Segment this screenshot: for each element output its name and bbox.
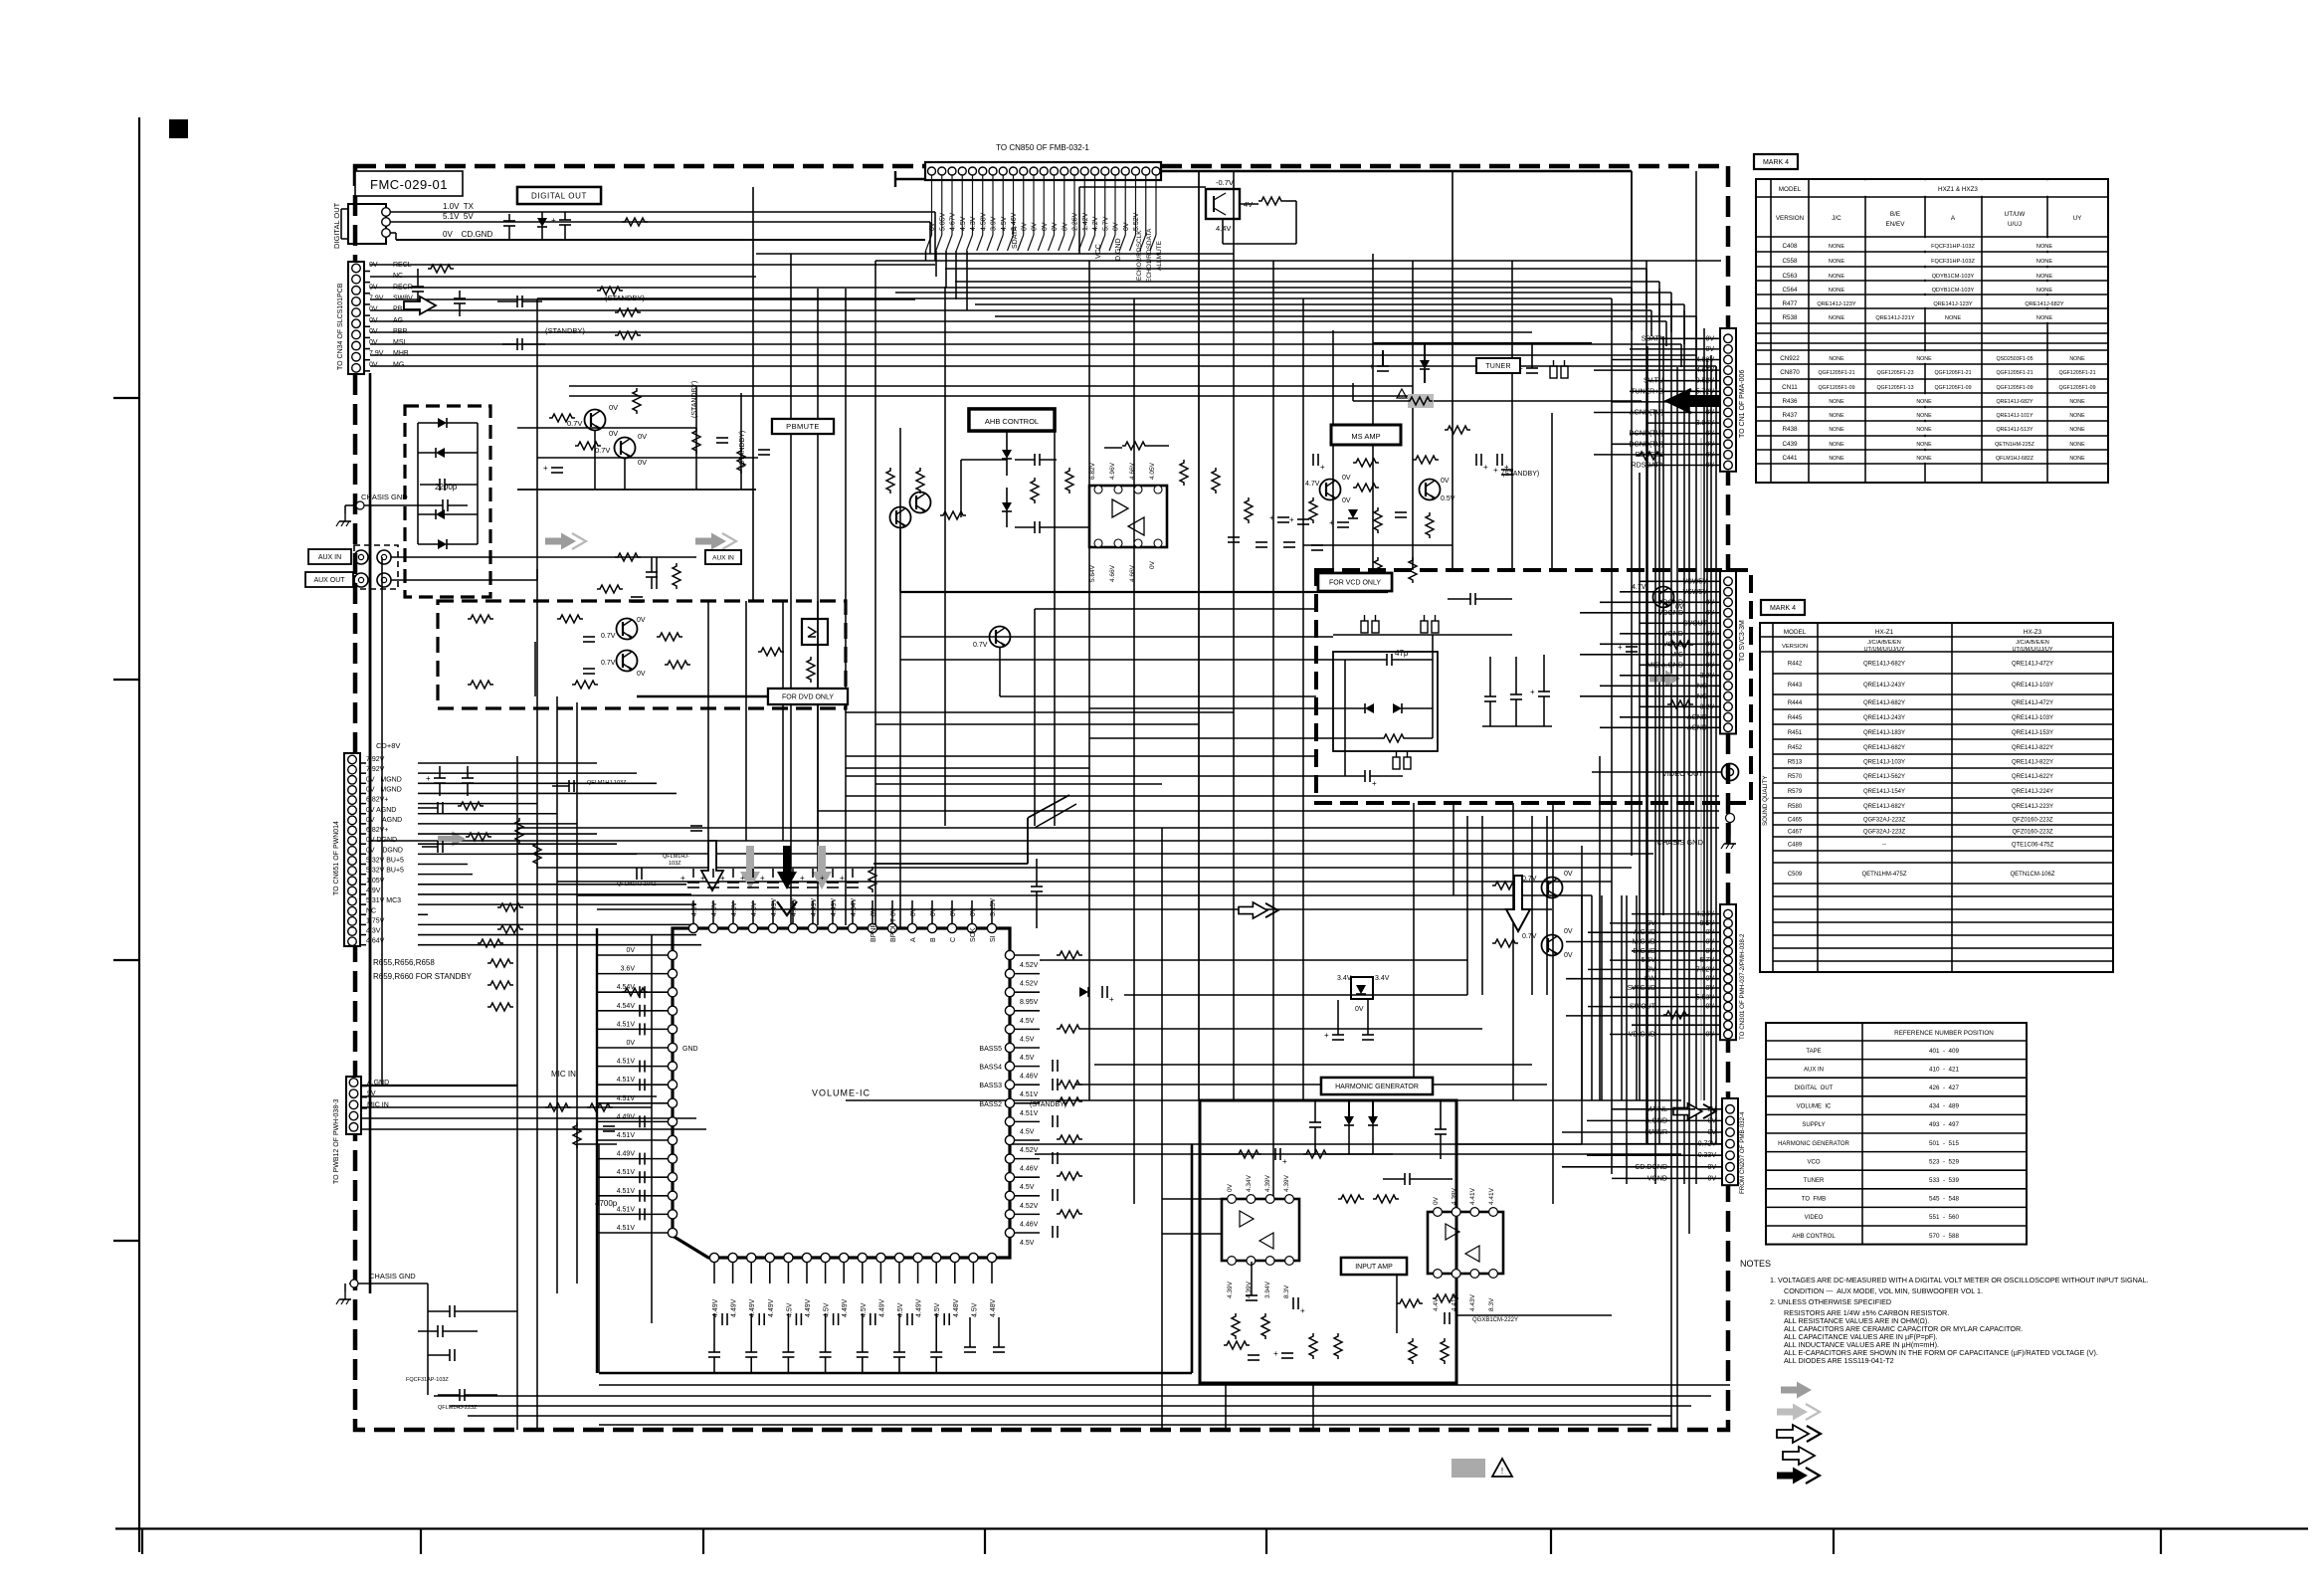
label box FOR DVD ONLY top: [768, 689, 848, 704]
svg-text:FQCF31HP-103Z: FQCF31HP-103Z: [1931, 244, 1975, 250]
pin 2: [938, 167, 946, 175]
svg-text:0V: 0V: [871, 907, 877, 916]
svg-text:QRE141J-682Y: QRE141J-682Y: [1996, 399, 2033, 405]
svg-text:0V: 0V: [930, 907, 937, 916]
wire thick right: [1161, 170, 1632, 173]
wire: [899, 428, 901, 928]
svg-text:PBR: PBR: [393, 328, 407, 335]
svg-text:!: !: [1501, 1467, 1503, 1476]
wire: [732, 1263, 734, 1283]
svg-text:0V: 0V: [1342, 475, 1351, 482]
capacitor C4612: [639, 1171, 641, 1183]
resistor R504: [1373, 1195, 1399, 1203]
resistor R505: [1232, 1313, 1240, 1339]
svg-text:0.5V: 0.5V: [1441, 495, 1455, 502]
capacitor C434: [1362, 1034, 1374, 1036]
pin 23: [1005, 1117, 1014, 1126]
pin 1: [709, 1253, 718, 1262]
wire: [1706, 358, 1708, 925]
wire: [898, 1263, 900, 1283]
legend gray rect: [1452, 1459, 1485, 1478]
wire: [576, 702, 578, 1283]
svg-text:545 - 548: 545 - 548: [1929, 1196, 1960, 1203]
wire: [1191, 1144, 1194, 1373]
wire: [1531, 816, 1533, 995]
wire: [825, 1263, 827, 1283]
svg-text:QFLM1HJ-: QFLM1HJ-: [663, 854, 689, 860]
wire: [598, 1144, 600, 1373]
svg-text:DIGITAL OUT: DIGITAL OUT: [531, 191, 587, 200]
svg-text:+: +: [740, 874, 745, 883]
wire: [1610, 1034, 1693, 1036]
wire: [418, 833, 597, 835]
FMC-029-01 block dashed border: [355, 166, 1728, 1430]
capacitor C481: [758, 1313, 760, 1325]
resistor extra: [1409, 557, 1417, 583]
pin 48: [688, 923, 697, 932]
capacitor C413: [583, 668, 595, 670]
svg-text:R451: R451: [1788, 730, 1803, 736]
svg-text:TO SVC3-3M: TO SVC3-3M: [1739, 620, 1746, 662]
svg-text:4.51V: 4.51V: [617, 1059, 636, 1066]
wire: [418, 923, 691, 925]
wire: [1715, 366, 1717, 389]
wire: [1592, 771, 1721, 773]
svg-text:493 - 497: 493 - 497: [1929, 1121, 1960, 1128]
svg-text:UT/UM/U/UJ/UY: UT/UM/U/UJ/UY: [1863, 647, 1904, 653]
svg-text:0V DGND: 0V DGND: [366, 847, 403, 854]
svg-text:2.26V: 2.26V: [1072, 212, 1079, 231]
capacitor C408a: [758, 449, 770, 451]
pin 60: [668, 1154, 677, 1163]
resistor R402: [597, 287, 623, 295]
wire: [875, 260, 1721, 262]
svg-text:(STANDBY): (STANDBY): [739, 431, 746, 468]
label box FOR VCD ONLY: [1318, 573, 1392, 591]
capacitor C486: [943, 1313, 945, 1325]
svg-text:0V: 0V: [1227, 1183, 1234, 1192]
legend open arrow: [1783, 1447, 1815, 1465]
wire: [812, 869, 814, 878]
wire: [1610, 922, 1693, 924]
wire: [934, 212, 936, 261]
wire: [1094, 175, 1096, 235]
wire: [1332, 330, 1334, 570]
FOR VCD ONLY dashed box: [1316, 570, 1751, 803]
diode D407: [1002, 502, 1012, 511]
wire: [1601, 895, 1603, 1100]
svg-text:+: +: [1289, 515, 1294, 524]
pin 41: [828, 923, 837, 932]
svg-text:VCO: VCO: [1807, 1159, 1820, 1165]
pin 6: [979, 167, 987, 175]
svg-text:5.64V: 5.64V: [1089, 564, 1096, 582]
wire: [1691, 369, 1720, 371]
wire: [1662, 336, 1664, 915]
ecap C448: [1101, 986, 1103, 998]
svg-text:QRE141J-123Y: QRE141J-123Y: [1933, 301, 1972, 307]
down arrow big: [1506, 876, 1530, 931]
resistor R420: [807, 657, 815, 683]
svg-text:VIDEO OUT: VIDEO OUT: [1662, 769, 1704, 778]
resistor R421: [1259, 197, 1284, 205]
svg-text:B/E: B/E: [1890, 211, 1900, 218]
svg-text:0.7V: 0.7V: [601, 660, 616, 667]
wire: [790, 254, 792, 925]
table MARK4 span masks: [1810, 180, 2107, 196]
wire: [1481, 816, 1483, 995]
pin 8: [348, 867, 357, 876]
svg-text:QRE141J-622Y: QRE141J-622Y: [2012, 774, 2053, 780]
wire: [1646, 269, 1647, 308]
pin 54: [668, 1043, 677, 1052]
inductor L402: [1361, 621, 1368, 633]
wire: [1002, 175, 1004, 235]
svg-text:R444: R444: [1788, 700, 1803, 706]
wire: [1015, 1010, 1040, 1012]
pin 25: [1005, 1081, 1014, 1089]
wire: [951, 175, 953, 235]
wire: [1600, 643, 1693, 645]
resistor extra: [1374, 557, 1382, 583]
resistor R455: [869, 867, 876, 892]
bottom ruler line: [115, 1527, 2308, 1529]
svg-text:HXZ1 & HXZ3: HXZ1 & HXZ3: [1938, 186, 1978, 193]
capacitor C4614: [639, 1208, 641, 1220]
svg-text:4.39V: 4.39V: [1227, 1281, 1234, 1298]
capacitor C441a QFLM1HJ-104Z: [636, 868, 638, 880]
svg-text:C467: C467: [1788, 830, 1803, 836]
wire: [597, 1028, 668, 1030]
wire: [975, 303, 1684, 305]
svg-text:QRE141J-154Y: QRE141J-154Y: [1863, 789, 1905, 795]
svg-text:4.5V: 4.5V: [861, 1302, 868, 1317]
capacitor C495: [893, 1351, 905, 1353]
capacitor C490: [708, 1351, 720, 1353]
resistor R415: [657, 633, 682, 641]
wire: [361, 1106, 652, 1108]
white arrow PB: [404, 296, 436, 314]
wire: [1630, 433, 1691, 435]
resistor R503: [1338, 1195, 1364, 1203]
wire: [1015, 1213, 1040, 1215]
down arrow gray: [740, 846, 760, 889]
capacitor C496: [930, 1351, 942, 1353]
wire: [756, 253, 1234, 255]
transistor Q404: [617, 651, 638, 672]
capacitor C469: [639, 1115, 641, 1127]
wire: [1580, 695, 1693, 697]
wire: [971, 900, 973, 923]
svg-text:4.52V: 4.52V: [1020, 1147, 1039, 1154]
IC U404 VOLUME-IC body: [673, 928, 1010, 1258]
pin 4: [765, 1253, 774, 1262]
pin 30: [1005, 988, 1014, 997]
wire: [1693, 675, 1720, 677]
wire: [597, 1010, 668, 1012]
svg-text:+: +: [551, 216, 556, 225]
wire: [1089, 707, 1345, 709]
wire: [534, 642, 536, 696]
wire: [911, 900, 913, 923]
svg-text:QGF32AJ-223Z: QGF32AJ-223Z: [1863, 818, 1906, 824]
resistor R452a: [545, 1103, 571, 1111]
wire: [846, 711, 1234, 713]
wire: [1162, 1233, 1222, 1235]
resistor R456a: [622, 988, 648, 996]
gray arrow: [1649, 671, 1680, 688]
wire: [370, 287, 1632, 289]
pin 3: [352, 287, 361, 296]
svg-text:+: +: [1109, 995, 1114, 1004]
wire: [361, 1128, 706, 1130]
pin 2: [382, 218, 391, 227]
wire: [1600, 685, 1693, 687]
svg-text:SDATA: SDATA: [1012, 226, 1019, 249]
pin 39: [868, 923, 876, 932]
wire: [344, 505, 346, 513]
svg-text:R579: R579: [1788, 789, 1803, 795]
wire: [750, 1263, 752, 1283]
capacitor C482: [795, 1313, 797, 1325]
svg-text:QGF1205F1-21: QGF1205F1-21: [1818, 370, 1854, 376]
wire: [1646, 346, 1648, 1144]
svg-text:8.95V: 8.95V: [1020, 999, 1039, 1006]
svg-text:QGF1205F1-09: QGF1205F1-09: [1934, 385, 1971, 391]
capacitor C411: [631, 596, 643, 598]
wire: [991, 900, 993, 923]
capacitor C464: [639, 1023, 641, 1035]
resistor R501: [1236, 1150, 1261, 1158]
wire: [1161, 828, 1163, 1430]
pin 35: [947, 923, 956, 932]
wire: [991, 1263, 993, 1283]
wire: [1015, 1139, 1040, 1141]
svg-text:C441: C441: [1782, 455, 1798, 462]
wire: [1693, 922, 1720, 924]
svg-text:+: +: [700, 874, 705, 883]
resistor R516: [1667, 641, 1693, 649]
wire: [1612, 443, 1691, 445]
svg-text:QRE141J-101Y: QRE141J-101Y: [1996, 413, 2033, 419]
wire: [692, 869, 694, 878]
capacitor extra: [1256, 541, 1267, 543]
resistor R443a: [515, 818, 523, 844]
transistor Q401: [585, 410, 606, 431]
diode D405: [438, 539, 447, 549]
svg-text:2. UNLESS OTHERWISE SPECIFIED: 2. UNLESS OTHERWISE SPECIFIED: [1770, 1297, 1891, 1306]
svg-text:7.92V: 7.92V: [366, 766, 385, 773]
wire: [945, 251, 947, 288]
resistor R450: [487, 981, 513, 989]
wire: [1695, 355, 1697, 378]
wire: [344, 1283, 346, 1291]
wire: [577, 1143, 617, 1145]
capacitor extra: [1228, 536, 1240, 538]
svg-text:5.31V MC3: 5.31V MC3: [366, 897, 401, 904]
wire: [862, 1263, 864, 1283]
wire: [832, 869, 834, 878]
capacitor C475: [1052, 1226, 1054, 1238]
legend warning triangle: [1492, 1459, 1512, 1477]
capacitor C444: [437, 1325, 439, 1337]
wire: [1594, 369, 1691, 371]
wire: [1015, 1066, 1040, 1068]
wire: [874, 261, 876, 925]
pin 52: [668, 1006, 677, 1015]
svg-text:+: +: [840, 874, 845, 883]
svg-text:0V: 0V: [638, 458, 647, 467]
ground chassis: [1729, 836, 1731, 844]
resistor R427: [1122, 442, 1148, 450]
svg-text:0V: 0V: [369, 361, 378, 368]
wire: [1691, 465, 1720, 467]
wire: [1456, 1099, 1681, 1101]
svg-text:NONE: NONE: [1829, 413, 1844, 419]
pin 55: [668, 1062, 677, 1071]
wire: [1600, 726, 1693, 728]
capacitor C452: [727, 882, 739, 884]
svg-text:4.5V: 4.5V: [1020, 1184, 1035, 1191]
down arrow gray2: [812, 846, 832, 889]
bottom ruler tick: [1265, 1529, 1267, 1555]
svg-text:R436: R436: [1782, 398, 1798, 405]
svg-text:C: C: [950, 937, 957, 942]
wire: [594, 431, 596, 490]
capacitor C485: [993, 1346, 1005, 1348]
wire: [1552, 803, 1554, 1204]
svg-text:0V: 0V: [369, 317, 378, 324]
wire: [832, 900, 834, 923]
pin 26: [1005, 1062, 1014, 1071]
svg-text:523 - 529: 523 - 529: [1929, 1158, 1960, 1165]
label box INPUT AMP: [1341, 1258, 1407, 1275]
svg-text:NONE: NONE: [1916, 356, 1932, 362]
svg-text:ALL DIODES ARE 1SS119-041-T2: ALL DIODES ARE 1SS119-041-T2: [1784, 1356, 1894, 1365]
capacitor C480: [721, 1313, 723, 1325]
wire: [599, 1384, 1730, 1386]
label box AHB CONTROL top: [969, 409, 1055, 431]
label box AUX IN small: [705, 550, 741, 564]
wire: [1591, 895, 1593, 1100]
svg-text:SUPPLY: SUPPLY: [1802, 1122, 1825, 1128]
svg-text:533 - 539: 533 - 539: [1929, 1177, 1960, 1184]
wire: [1693, 987, 1720, 989]
pin 8: [999, 167, 1007, 175]
wire: [370, 365, 1716, 367]
svg-text:NONE: NONE: [1916, 399, 1932, 405]
jack AUX IN R: [377, 550, 391, 564]
wire: [1688, 389, 1690, 1234]
wire: [418, 843, 617, 845]
svg-text:CN870: CN870: [1780, 369, 1800, 376]
svg-text:GND: GND: [682, 1046, 698, 1053]
svg-text:NONE: NONE: [2036, 259, 2052, 265]
wire: [1580, 612, 1693, 614]
wire: [1691, 359, 1720, 361]
svg-text:+: +: [1493, 466, 1498, 475]
svg-text:5.52V: 5.52V: [1133, 212, 1140, 231]
svg-text:MARK 4: MARK 4: [1770, 605, 1796, 612]
capacitor C427: [559, 219, 571, 221]
svg-text:SCK: SCK: [970, 927, 977, 942]
capacitor C426: [503, 220, 515, 222]
wire: [1511, 261, 1513, 570]
diode D406: [1002, 450, 1012, 459]
wire: [417, 423, 419, 544]
wire: [1145, 175, 1147, 235]
gray arrow: [695, 533, 726, 550]
wire: [1015, 973, 1040, 975]
connector DIGITAL OUT jack: [348, 204, 386, 244]
ecap C428: [1364, 770, 1366, 782]
svg-text:(STANDBY): (STANDBY): [691, 381, 698, 418]
svg-text:--: --: [1882, 843, 1886, 849]
resistor R431: [1212, 468, 1220, 493]
wire: [427, 1283, 429, 1395]
wire: [1333, 634, 1512, 636]
svg-text:0V: 0V: [1149, 560, 1156, 569]
svg-text:QRE141J-822Y: QRE141J-822Y: [2012, 745, 2053, 751]
wire: [845, 289, 847, 925]
capacitor C427b 47p: [1386, 654, 1388, 666]
svg-text:0V: 0V: [1123, 222, 1130, 231]
svg-text:3.15V: 3.15V: [990, 897, 997, 916]
resistor R445a: [533, 841, 541, 867]
svg-text:4.5V: 4.5V: [751, 901, 758, 916]
svg-text:4.66V: 4.66V: [1129, 462, 1136, 480]
svg-text:TO CN651 OF PWN014: TO CN651 OF PWN014: [333, 821, 340, 895]
wire: [370, 264, 935, 266]
capacitor C457: [827, 882, 839, 884]
pin 14: [348, 806, 357, 815]
wire: [732, 869, 734, 878]
wire: [955, 251, 957, 299]
svg-text:4.5V: 4.5V: [1020, 1036, 1035, 1043]
svg-text:401 - 409: 401 - 409: [1929, 1048, 1960, 1055]
gray-mark resistor R438a: [1408, 394, 1434, 408]
resistor R447: [497, 925, 523, 933]
svg-text:R452: R452: [1788, 745, 1803, 751]
pin 6: [348, 887, 357, 895]
svg-text:+: +: [426, 774, 431, 783]
wire: [1034, 609, 1036, 826]
wire: [418, 813, 557, 815]
pin 10: [348, 847, 357, 856]
wire: [1222, 1382, 1452, 1384]
svg-text:QDYB1CM-103Y: QDYB1CM-103Y: [1932, 274, 1975, 280]
wire: [1432, 635, 1434, 738]
svg-text:RECL: RECL: [393, 262, 412, 269]
resistor R463: [1057, 1097, 1082, 1105]
svg-text:0V DGND: 0V DGND: [366, 837, 397, 844]
resistor R419: [758, 648, 784, 656]
wire: [1710, 355, 1712, 1144]
wire: [368, 556, 370, 558]
wire: [1676, 367, 1678, 1430]
svg-text:QGXB1CM-222Y: QGXB1CM-222Y: [1472, 1317, 1518, 1323]
svg-text:0V: 0V: [369, 284, 378, 291]
wire: [1352, 383, 1354, 401]
svg-text:0V: 0V: [1441, 478, 1450, 485]
pin 16: [1080, 167, 1088, 175]
wire: [1639, 473, 1641, 1100]
svg-text:4.34V: 4.34V: [1246, 1174, 1253, 1192]
wire: [597, 1139, 668, 1141]
pin 5: [969, 167, 977, 175]
wire: [1670, 293, 1672, 332]
svg-text:C465: C465: [1788, 818, 1803, 824]
